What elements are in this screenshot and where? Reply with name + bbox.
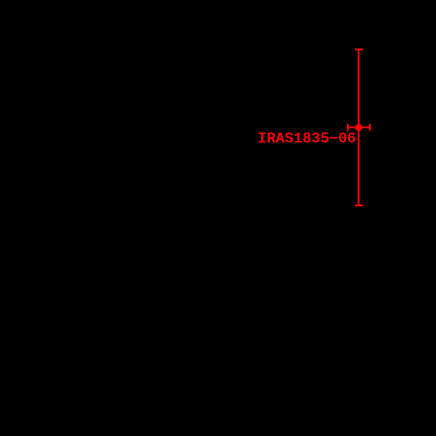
bottom cap — [355, 204, 363, 206]
top cap — [355, 48, 363, 50]
left cap — [347, 124, 349, 131]
right cap — [369, 124, 371, 131]
data point IRAS1835-06 — [355, 124, 362, 131]
vertical error bar of IRAS1835-06 — [358, 49, 360, 205]
svg-text:IRAS1835−06: IRAS1835−06 — [258, 132, 356, 148]
horizontal error bar — [348, 126, 370, 128]
